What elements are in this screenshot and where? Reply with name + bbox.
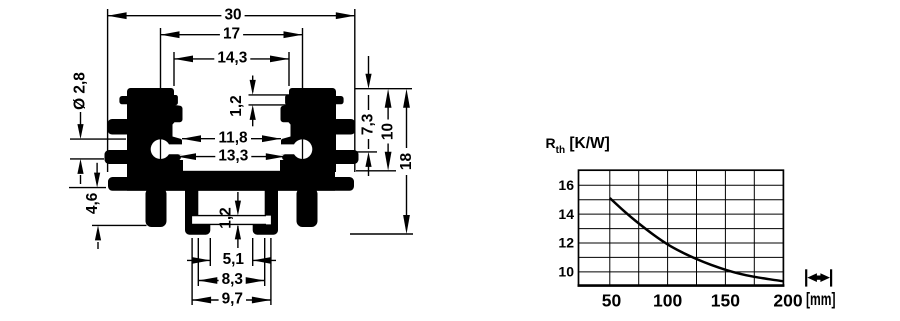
dimension 5,1 extension lines xyxy=(210,238,252,266)
right solder leg with groove and foot xyxy=(253,189,278,235)
svg-text:1,2: 1,2 xyxy=(228,95,245,116)
chart grid xyxy=(579,170,784,285)
extension line at y=151.9 xyxy=(354,151,377,153)
svg-text:Ø 2,8: Ø 2,8 xyxy=(72,72,89,110)
left outer fin upper xyxy=(108,119,132,135)
chart y-axis labels xyxy=(558,177,574,280)
dimension 4,6 lines xyxy=(69,188,147,226)
dimension 1,2 bottom label xyxy=(218,207,235,228)
heatsink base plate xyxy=(108,171,354,191)
left bottom fin xyxy=(146,188,167,227)
right mounting hole Ø2,8 xyxy=(293,139,313,159)
dimension 13,3 xyxy=(177,147,285,164)
svg-text:14,3: 14,3 xyxy=(217,50,247,67)
svg-text:7,3: 7,3 xyxy=(360,114,377,135)
svg-text:18: 18 xyxy=(398,153,415,171)
dimension 7,3 xyxy=(360,56,377,176)
left mounting hole Ø2,8 xyxy=(151,139,171,159)
svg-text:4,6: 4,6 xyxy=(84,193,101,214)
dimension 9,7 extension lines xyxy=(192,238,271,305)
left clamp tower body xyxy=(119,88,183,172)
dimension 4,6 arrows xyxy=(94,163,101,249)
chart frame xyxy=(578,170,785,285)
dimension 10 xyxy=(380,89,397,171)
dimension 4,6 label xyxy=(84,193,101,214)
bottom extension line right xyxy=(350,233,413,235)
chart title Rth [K/W] xyxy=(546,135,610,156)
svg-text:1,2: 1,2 xyxy=(218,207,235,228)
chart x-axis labels xyxy=(602,289,836,310)
dimension 18 xyxy=(398,89,415,234)
Rth curve xyxy=(610,198,784,281)
dimension Ø2,8 tangent lines xyxy=(70,139,126,159)
hole centreline left xyxy=(160,139,162,159)
top extension line right xyxy=(355,88,413,90)
svg-text:100: 100 xyxy=(653,290,682,310)
dimension 17 extension lines xyxy=(161,28,303,138)
left solder leg with groove and foot xyxy=(185,189,210,235)
svg-text:13,3: 13,3 xyxy=(218,147,248,164)
dimension Ø2,8 label xyxy=(72,72,89,110)
right clamp tower body xyxy=(280,88,344,172)
length double-arrow icon xyxy=(806,269,831,286)
left outer fin lower xyxy=(105,150,132,164)
dimension Ø2,8 arrows xyxy=(77,112,83,184)
dimension 14,3 xyxy=(174,50,289,67)
svg-text:150: 150 xyxy=(711,290,740,310)
svg-text:[mm]: [mm] xyxy=(806,289,836,309)
right outer fin upper xyxy=(332,119,356,135)
dimension 1,2 top lines xyxy=(249,95,291,105)
dimension 30 extension lines xyxy=(108,9,355,172)
dimension 1,2 top arrows xyxy=(250,76,256,127)
svg-text:16: 16 xyxy=(558,177,574,193)
dimension 8,3 xyxy=(198,271,264,288)
svg-text:Rth [K/W]: Rth [K/W] xyxy=(546,135,610,156)
dimension 17 xyxy=(161,25,303,42)
svg-text:9,7: 9,7 xyxy=(222,291,243,308)
svg-text:12: 12 xyxy=(558,235,574,251)
right outer fin lower xyxy=(332,150,359,164)
svg-text:30: 30 xyxy=(224,6,241,23)
dimension 30 xyxy=(108,6,355,23)
dimension 9,7 xyxy=(192,291,271,308)
right bottom fin xyxy=(297,188,318,227)
svg-text:5,1: 5,1 xyxy=(223,251,245,268)
dimension 14,3 extension lines xyxy=(174,52,289,86)
svg-text:200: 200 xyxy=(773,290,802,310)
dimension 11,8 xyxy=(182,129,281,146)
svg-text:10: 10 xyxy=(380,123,397,140)
svg-text:17: 17 xyxy=(223,25,240,42)
dimension 1,2 top label xyxy=(228,95,245,116)
svg-text:8,3: 8,3 xyxy=(222,271,243,288)
svg-text:14: 14 xyxy=(558,206,574,222)
dimension 8,3 extension lines xyxy=(198,238,264,286)
extension line at y=170.8 right xyxy=(356,170,396,172)
hole centreline right xyxy=(302,139,304,159)
dimension 5,1 xyxy=(187,251,276,268)
dimension 1,2 bottom arrows xyxy=(235,192,241,248)
svg-text:50: 50 xyxy=(602,290,622,310)
svg-text:10: 10 xyxy=(558,264,574,280)
svg-text:11,8: 11,8 xyxy=(218,129,248,146)
dimension 1,2 bottom lines xyxy=(191,216,266,225)
